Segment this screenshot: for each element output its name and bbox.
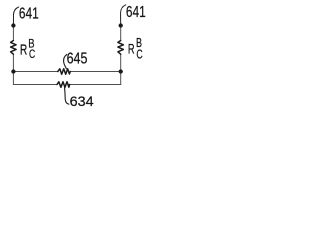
svg-text:641: 641 <box>126 4 146 21</box>
svg-text:C: C <box>136 46 143 61</box>
svg-text:645: 645 <box>67 51 88 68</box>
svg-text:C: C <box>29 47 35 61</box>
svg-text:641: 641 <box>19 5 39 22</box>
svg-text:634: 634 <box>70 93 94 109</box>
svg-text:R: R <box>128 40 135 56</box>
svg-text:R: R <box>20 42 27 58</box>
